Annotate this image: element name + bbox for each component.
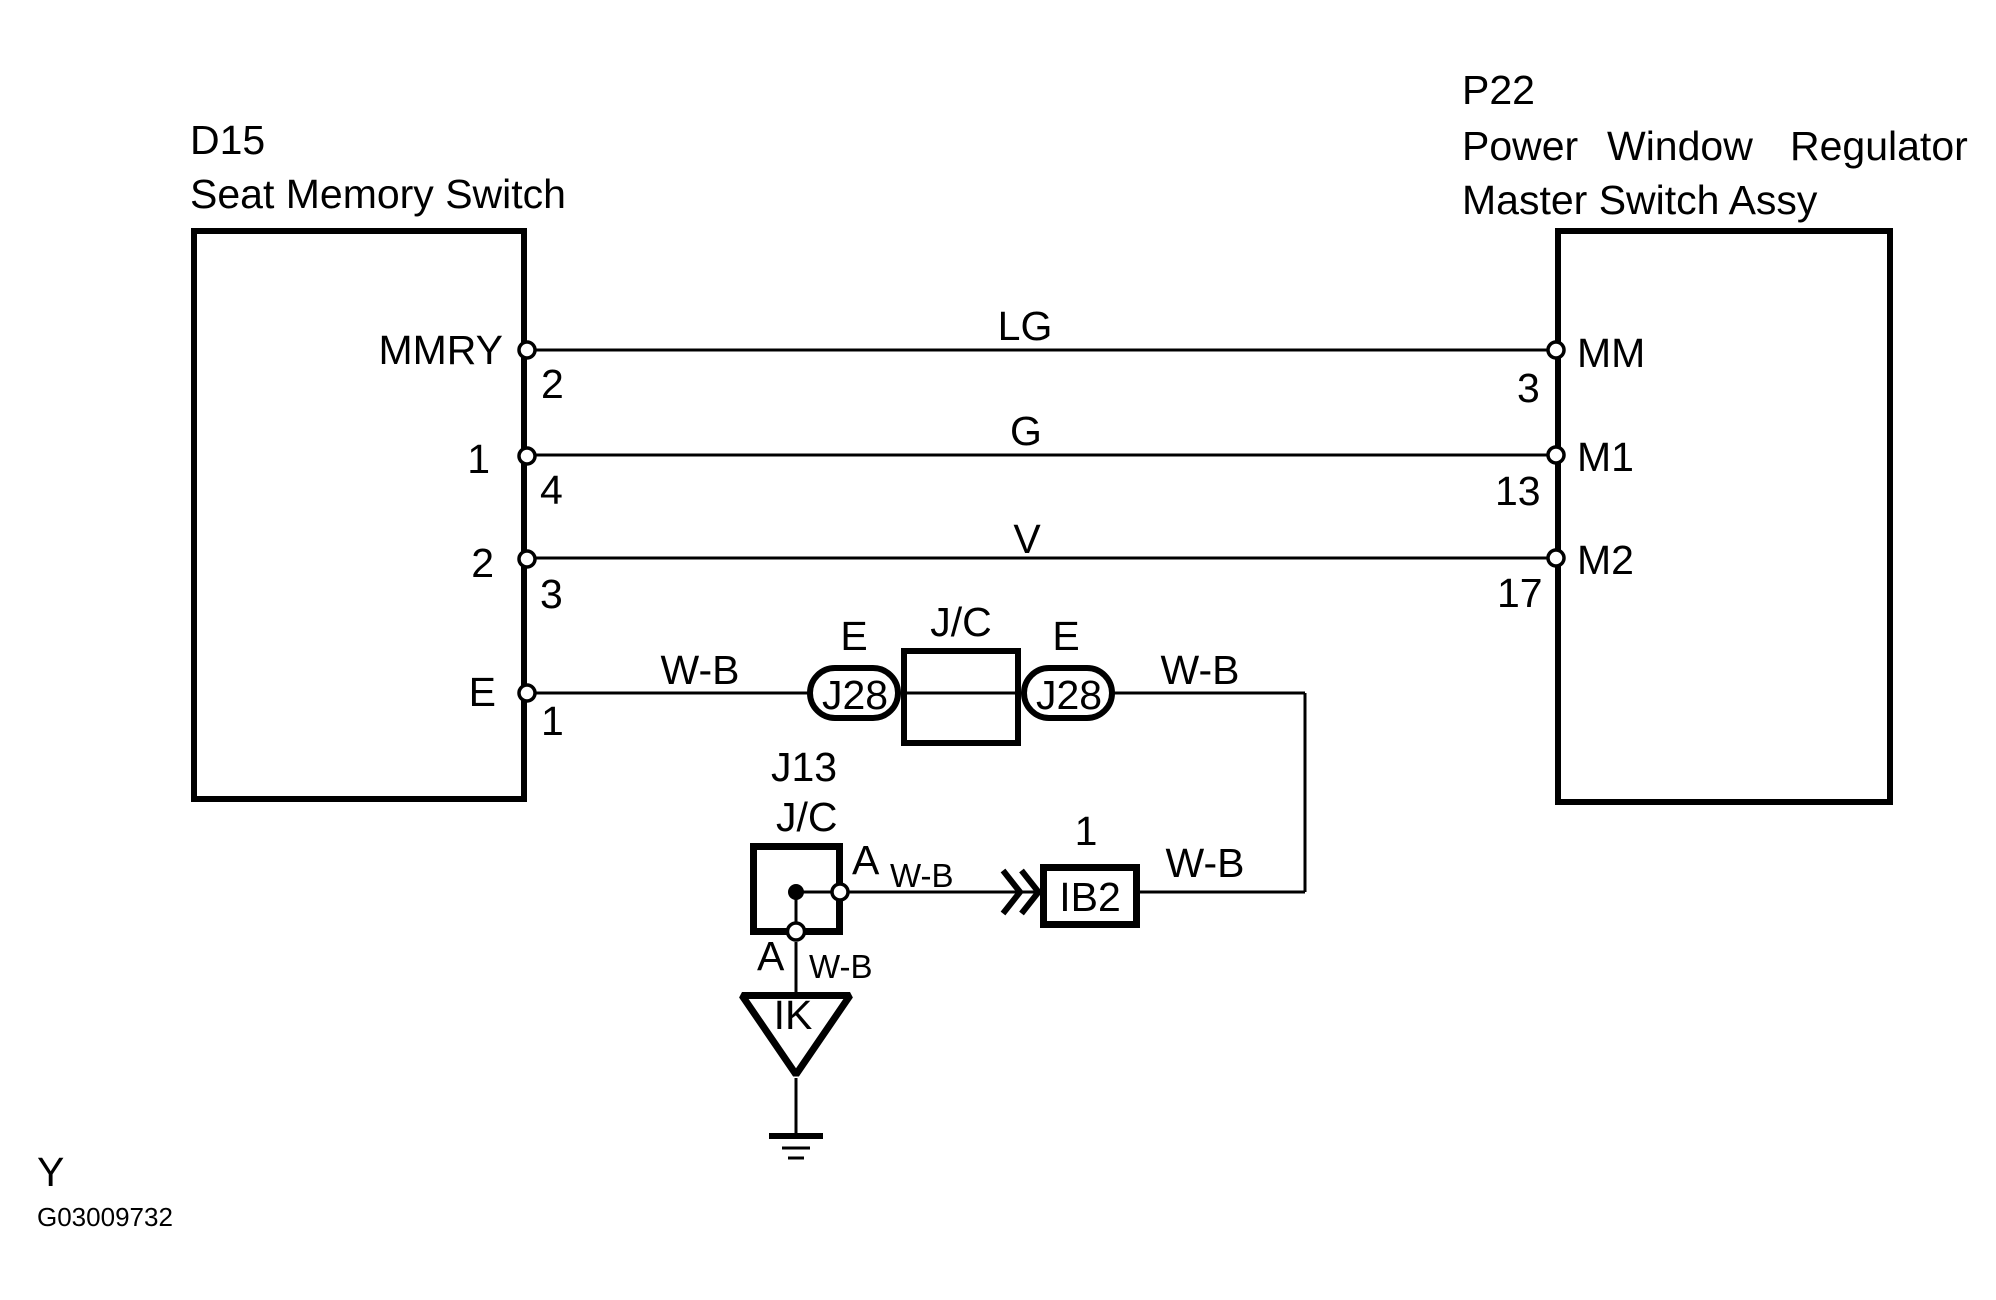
svg-text:Master Switch Assy: Master Switch Assy bbox=[1462, 177, 1818, 223]
connector J28 right oval bbox=[1024, 668, 1112, 718]
wire V from D15 pin 3 to P22 pin 17 bbox=[527, 557, 1556, 560]
svg-text:P22: P22 bbox=[1462, 67, 1535, 113]
pin MM of P22 bbox=[1517, 330, 1645, 411]
wire W-B from corner to IB2 bbox=[1140, 891, 1305, 894]
wire LG from D15 pin 2 to P22 pin 3 bbox=[527, 349, 1556, 352]
svg-text:W-B: W-B bbox=[1161, 647, 1240, 693]
svg-text:W-B: W-B bbox=[661, 647, 740, 693]
svg-text:W-B: W-B bbox=[809, 948, 873, 985]
svg-text:J/C: J/C bbox=[930, 599, 992, 645]
arrow chevrons into IB2 bbox=[1003, 871, 1039, 914]
svg-text:M2: M2 bbox=[1577, 537, 1634, 583]
svg-text:MM: MM bbox=[1577, 330, 1645, 376]
svg-text:A: A bbox=[852, 837, 880, 883]
svg-text:MMRY: MMRY bbox=[378, 327, 503, 373]
pin MMRY of D15 bbox=[378, 327, 563, 407]
ground triangle IK bbox=[742, 992, 850, 1075]
svg-text:E: E bbox=[469, 669, 496, 715]
junction box J/C between J28 connectors bbox=[904, 651, 1018, 743]
junction box J13 J/C bbox=[754, 744, 840, 932]
svg-text:G03009732: G03009732 bbox=[37, 1202, 173, 1232]
wire W-B vertical segment down to IB2 level bbox=[1304, 693, 1307, 892]
svg-text:W-B: W-B bbox=[890, 857, 954, 894]
wire G from D15 pin 4 to P22 pin 13 bbox=[527, 454, 1556, 457]
svg-text:3: 3 bbox=[540, 571, 563, 617]
ground symbol bbox=[769, 1136, 823, 1158]
svg-text:3: 3 bbox=[1517, 365, 1540, 411]
svg-text:13: 13 bbox=[1495, 468, 1541, 514]
svg-text:1: 1 bbox=[467, 436, 490, 482]
svg-text:A: A bbox=[757, 933, 785, 979]
pin 2 of D15 bbox=[471, 540, 563, 617]
pin M2 of P22 bbox=[1497, 537, 1634, 616]
junction dot inside J13 bbox=[788, 884, 804, 900]
component IB2 box bbox=[1044, 868, 1137, 925]
connector D15 label bbox=[190, 117, 566, 217]
svg-text:G: G bbox=[1010, 408, 1042, 454]
wire W-B from J13 node A to IB2 bbox=[840, 891, 1038, 894]
svg-text:Power: Power bbox=[1462, 123, 1578, 169]
svg-text:M1: M1 bbox=[1577, 434, 1634, 480]
pin A right of J13 bbox=[832, 884, 848, 900]
svg-text:J28: J28 bbox=[822, 672, 888, 718]
pin A bottom of J13 bbox=[788, 923, 805, 940]
svg-text:Y: Y bbox=[37, 1149, 64, 1195]
wire W-B from D15 pin E through J28 junction to corner bbox=[527, 692, 1305, 695]
svg-text:1: 1 bbox=[541, 698, 564, 744]
svg-text:E: E bbox=[840, 613, 867, 659]
svg-text:2: 2 bbox=[541, 361, 564, 407]
svg-text:IK: IK bbox=[774, 992, 813, 1038]
svg-text:J/C: J/C bbox=[776, 794, 838, 840]
svg-text:LG: LG bbox=[998, 303, 1053, 349]
pin M1 of P22 bbox=[1495, 434, 1634, 514]
wire from IK apex to ground bbox=[795, 1078, 798, 1133]
svg-text:D15: D15 bbox=[190, 117, 265, 163]
component P22 Power Window Regulator Master Switch Assy box bbox=[1558, 231, 1890, 802]
wire from J13 bottom pin A to IK triangle bbox=[795, 942, 798, 992]
svg-text:V: V bbox=[1013, 516, 1041, 562]
svg-text:IB2: IB2 bbox=[1059, 874, 1121, 920]
svg-text:J28: J28 bbox=[1036, 672, 1102, 718]
svg-text:Window: Window bbox=[1607, 123, 1753, 169]
svg-text:W-B: W-B bbox=[1166, 840, 1245, 886]
svg-text:Seat Memory Switch: Seat Memory Switch bbox=[190, 171, 566, 217]
svg-text:2: 2 bbox=[471, 540, 494, 586]
connector P22 label bbox=[1462, 67, 1968, 223]
svg-text:J13: J13 bbox=[771, 744, 837, 790]
wire inside J13 from junction to pin A bottom bbox=[795, 892, 798, 934]
svg-text:4: 4 bbox=[540, 467, 563, 513]
wire inside J13 from junction to pin A right bbox=[796, 891, 840, 894]
connector J28 left oval bbox=[810, 668, 898, 718]
pin E of D15 bbox=[469, 669, 564, 744]
svg-text:1: 1 bbox=[1075, 808, 1098, 854]
svg-text:E: E bbox=[1052, 613, 1079, 659]
svg-text:17: 17 bbox=[1497, 570, 1543, 616]
svg-text:Regulator: Regulator bbox=[1790, 123, 1968, 169]
component D15 Seat Memory Switch box bbox=[194, 231, 524, 799]
pin 1 of D15 bbox=[467, 436, 563, 513]
